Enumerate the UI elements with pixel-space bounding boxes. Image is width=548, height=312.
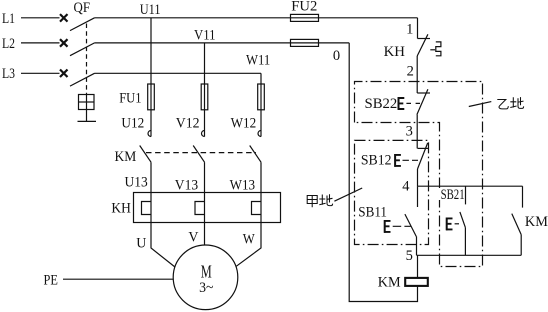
svg-text:SB11: SB11: [358, 204, 387, 220]
svg-text:PE: PE: [44, 272, 59, 288]
motor M circle: [173, 245, 238, 310]
place B label yi: [497, 100, 508, 109]
breaker QF operator box: [78, 95, 97, 122]
button SB11 NO blade: [405, 214, 416, 236]
thermal relay KH box: [134, 193, 281, 223]
svg-text:W11: W11: [246, 53, 270, 69]
wire V11 drop: [204, 43, 206, 137]
wire SB11 bottom: [416, 237, 418, 256]
wire L1: [21, 17, 60, 19]
fuse FU1 phase V body: [201, 84, 208, 110]
wire bus L1: [95, 17, 418, 19]
button SB12 actuator stem: [394, 154, 396, 167]
place A label di: [319, 194, 332, 205]
contactor KM main blade W: [250, 146, 261, 163]
thermal relay KH heater W: [252, 202, 262, 215]
svg-text:KM: KM: [525, 214, 548, 230]
wire SB21 top: [465, 186, 467, 204]
thermal relay KH heater V: [195, 202, 205, 215]
button SB21 dash: [455, 223, 459, 225]
wire SB11 top: [417, 186, 419, 207]
contactor KM main contact U socket: [148, 131, 151, 137]
breaker QF pole 1 terminal x: [60, 14, 68, 22]
svg-text:4: 4: [402, 178, 410, 194]
svg-text:2: 2: [407, 64, 414, 80]
svg-text:V12: V12: [176, 115, 200, 131]
wire node5 to coil: [417, 255, 419, 277]
breaker QF pole 2 terminal x: [60, 39, 68, 47]
wire SB21 bottom: [464, 228, 466, 256]
wire KM aux bottom: [520, 235, 522, 256]
svg-text:KM: KM: [378, 275, 401, 291]
wire control neutral 0: [349, 43, 417, 302]
fuse FU2 body 2: [291, 39, 319, 46]
button SB21 NO blade: [460, 212, 466, 228]
button SB11 actuator stem: [384, 220, 386, 233]
svg-text:KH: KH: [111, 200, 131, 216]
svg-text:FU2: FU2: [291, 0, 317, 15]
fuse FU1 phase U body: [148, 84, 155, 110]
wire W11 drop: [260, 73, 262, 136]
svg-text:U13: U13: [125, 175, 148, 191]
boundary box place B (yi di) dash-dot L-shape: [355, 82, 483, 267]
contactor KM aux contact top wire: [522, 186, 524, 207]
breaker QF pole 2 blade: [70, 43, 95, 56]
contactor KM main contact W socket: [258, 131, 261, 137]
svg-text:SB22: SB22: [365, 96, 398, 112]
svg-text:L2: L2: [2, 36, 15, 52]
button SB12 dashes: [403, 159, 419, 161]
place A label jia: [307, 196, 317, 208]
svg-text:V13: V13: [175, 178, 198, 194]
wire V13: [204, 162, 206, 201]
contactor KM main blade U: [140, 146, 151, 163]
thermal relay KH actuator symbol: [436, 42, 441, 56]
svg-text:V11: V11: [194, 27, 216, 43]
wire node3-4: [417, 169, 419, 186]
svg-text:5: 5: [406, 248, 413, 264]
wire L3: [21, 72, 60, 74]
breaker QF linkage dashed: [86, 24, 88, 95]
contactor KM linkage dashed: [146, 152, 256, 154]
button SB22 actuator E: [398, 98, 405, 109]
boundary box place A (jia di) dash-dot: [355, 140, 429, 244]
wire node2-3: [416, 115, 418, 149]
thermal relay KH NC contact fixed bar: [418, 38, 431, 40]
svg-text:U12: U12: [121, 116, 144, 132]
wire U motor lead: [151, 215, 175, 267]
button SB22 NC fixed bar: [417, 92, 430, 94]
button SB12 NC fixed bar: [418, 147, 429, 149]
wire W13: [260, 162, 262, 201]
button SB22 actuator stem: [398, 97, 400, 110]
wire node 5 branch: [417, 254, 522, 256]
breaker QF pole 1 blade: [70, 18, 95, 31]
wire PE: [63, 278, 173, 280]
button SB21 actuator E: [446, 218, 453, 229]
wire bus L3: [95, 72, 262, 74]
contactor KM main contact V socket: [202, 131, 205, 137]
wire node1-2: [416, 56, 418, 93]
wire node 4 branch: [418, 185, 523, 187]
contactor KM aux NO blade: [512, 214, 521, 235]
button SB11 dashes: [393, 225, 411, 227]
svg-text:FU1: FU1: [119, 91, 141, 107]
wire V motor lead: [204, 215, 206, 246]
svg-text:V: V: [188, 230, 199, 246]
button SB22 dashes: [406, 102, 420, 104]
coil KM body: [405, 278, 428, 286]
breaker QF pole 3 terminal x: [60, 70, 68, 78]
button SB21 label backing: [438, 188, 465, 200]
svg-text:W12: W12: [231, 115, 257, 131]
svg-text:KH: KH: [384, 44, 406, 60]
thermal relay KH NC contact blade: [417, 34, 428, 56]
wire W motor lead: [236, 215, 261, 267]
wire L2: [21, 42, 60, 44]
svg-text:U: U: [136, 236, 147, 252]
svg-text:SB12: SB12: [361, 153, 392, 169]
fuse FU1 phase W body: [258, 84, 265, 110]
wire bus L2: [95, 42, 350, 44]
svg-text:SB21: SB21: [441, 187, 465, 203]
contactor KM main blade V: [193, 146, 204, 163]
fuse FU2 body 1: [291, 14, 319, 21]
button SB21 actuator stem: [446, 218, 448, 231]
wire control line down from L1: [417, 18, 419, 39]
thermal relay KH heater U: [142, 202, 152, 215]
svg-text:3~: 3~: [199, 280, 214, 296]
wire U13: [150, 162, 152, 201]
svg-text:3: 3: [406, 124, 413, 140]
svg-text:L1: L1: [2, 11, 15, 27]
thermal relay KH actuator dash: [430, 49, 435, 51]
wire U11 drop: [150, 18, 152, 137]
svg-text:M: M: [201, 262, 212, 282]
svg-text:W13: W13: [230, 178, 256, 194]
svg-text:KM: KM: [115, 149, 137, 165]
place B leader line: [469, 102, 492, 107]
button SB22 NC blade: [417, 89, 428, 114]
button SB12 actuator E: [394, 155, 401, 166]
breaker QF pole 3 blade: [70, 73, 95, 86]
svg-text:1: 1: [406, 21, 413, 37]
button SB12 NC blade: [418, 143, 428, 169]
svg-text:W: W: [243, 232, 255, 248]
place B label di: [510, 97, 523, 108]
place A leader line: [334, 188, 362, 201]
button SB11 actuator E: [384, 221, 391, 232]
svg-text:U11: U11: [140, 2, 161, 18]
svg-text:0: 0: [333, 48, 340, 64]
svg-text:L3: L3: [2, 66, 15, 82]
svg-text:QF: QF: [74, 0, 91, 16]
